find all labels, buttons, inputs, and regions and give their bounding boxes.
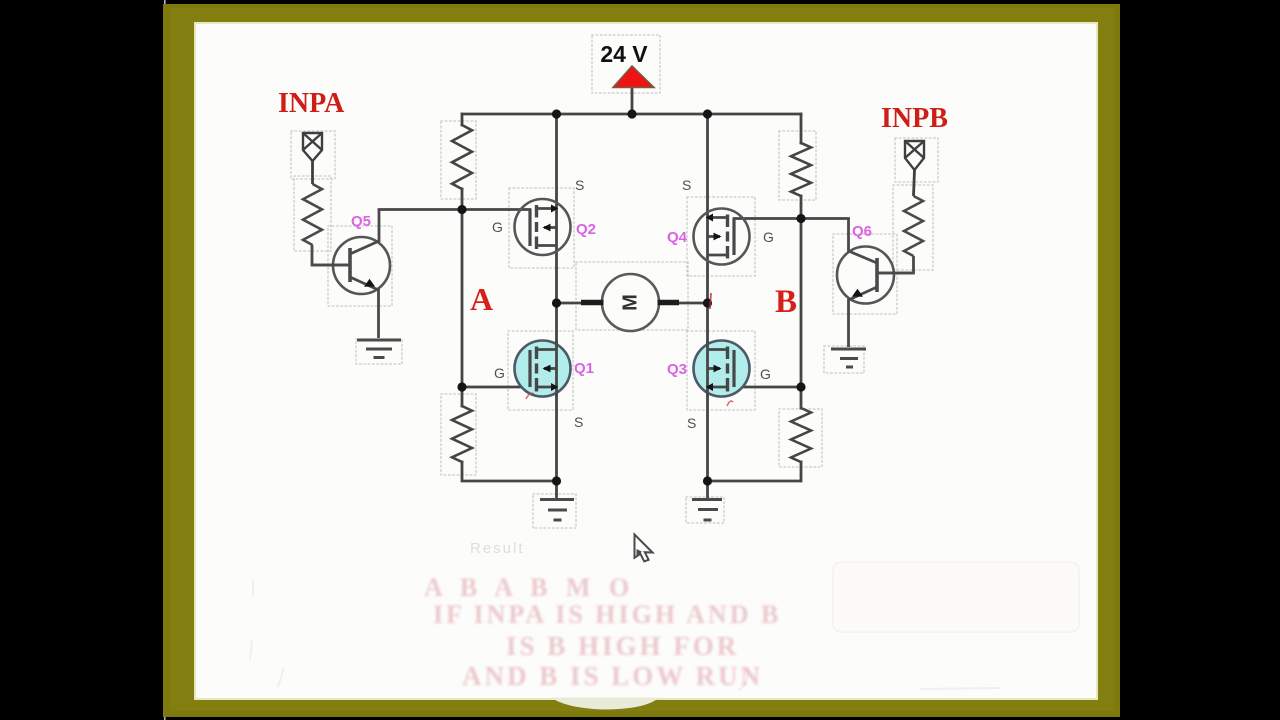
dashed box: motor: [576, 262, 688, 330]
svg-text:S: S: [574, 414, 583, 430]
wire mid-right ground stub: [706, 481, 709, 498]
svg-text:B: B: [775, 284, 797, 320]
wire INPB resistor to Q6 base: [877, 256, 914, 273]
transistor Q6: [837, 219, 914, 348]
input terminal INPA: [303, 133, 322, 184]
svg-text:G: G: [494, 365, 505, 381]
wire right column (node to R4): [800, 387, 803, 408]
svg-text:Q5: Q5: [351, 213, 371, 230]
red tick at node B wire: [710, 293, 711, 309]
power supply 24V arrow: [613, 66, 654, 88]
svg-text:G: G: [492, 219, 503, 235]
wire R4 bottom corner to ground node: [708, 462, 802, 481]
wire mid-right column: [706, 114, 709, 481]
wire R1 bottom to node: [461, 189, 464, 210]
wire motor right: [677, 302, 708, 305]
resistor R4 bottom-right zigzag: [791, 408, 811, 462]
wire right column top (rail to R2): [800, 114, 803, 143]
svg-text:G: G: [760, 366, 771, 382]
wire mid-left column: [555, 114, 558, 481]
dashed box: ground Q6: [824, 346, 864, 373]
mosfet Q4: [694, 209, 750, 265]
ground for Q6: [831, 349, 866, 367]
wire right rail B (node to node): [800, 219, 803, 388]
wire left column (node to R3): [461, 387, 464, 406]
svg-text:INPA: INPA: [278, 88, 345, 119]
dashed box: mosfet Q2: [509, 188, 574, 268]
svg-text:S: S: [687, 415, 696, 431]
dashed box: 24V supply: [592, 35, 660, 93]
faint ghost panel right: [833, 562, 1079, 632]
svg-text:Q3: Q3: [667, 361, 687, 378]
wire 24V stub: [631, 87, 634, 114]
dashed box: terminal INPB: [895, 138, 938, 182]
dashed box: transistor Q6: [833, 234, 897, 314]
junction dots: [457, 109, 805, 485]
mosfet Q3 (highlighted): [694, 341, 750, 397]
dashed box: transistor Q5: [328, 226, 392, 306]
ghost overlay text: [424, 573, 781, 691]
svg-text:S: S: [682, 177, 691, 193]
motor M1: [581, 274, 679, 331]
svg-text:M: M: [620, 294, 642, 311]
mouse cursor: [635, 535, 653, 562]
wire INPA resistor to Q5 base: [312, 245, 350, 265]
wire left column top (rail to R1): [461, 114, 464, 125]
dashed box: resistor top-right: [779, 131, 816, 200]
dashed box: resistor bottom-left: [441, 394, 476, 475]
transistor Q5: [312, 210, 391, 339]
cream notch on bottom border: [551, 698, 659, 710]
dashed box: resistor INPB: [893, 185, 933, 270]
svg-text:Q6: Q6: [852, 223, 872, 240]
resistor R1 top-left zigzag: [452, 125, 472, 189]
wire top rail: [462, 113, 801, 116]
svg-text:A: A: [470, 281, 493, 317]
mosfet Q1 (highlighted): [515, 341, 571, 397]
svg-text:AND B IS LOW RUN: AND B IS LOW RUN: [462, 661, 763, 691]
svg-text:IF INPA IS HIGH AND B: IF INPA IS HIGH AND B: [433, 600, 781, 629]
dashed box: terminal INPA: [291, 131, 335, 179]
svg-text:IS B HIGH FOR: IS B HIGH FOR: [506, 631, 739, 661]
svg-text:Q1: Q1: [574, 360, 594, 377]
wire motor left: [557, 302, 585, 305]
dashed box: resistor top-left: [441, 121, 476, 199]
dashed box: mosfet Q3: [687, 331, 755, 410]
svg-text:24 V: 24 V: [600, 41, 648, 67]
wire Q1 gate row: [462, 386, 530, 389]
ground mid-right: [692, 500, 722, 521]
wire mid-left ground stub: [555, 481, 558, 498]
svg-text:INPB: INPB: [881, 103, 948, 134]
wire Q3 gate row: [734, 386, 801, 389]
dashed box: ground mid-right: [686, 497, 724, 523]
input terminal INPB: [905, 141, 924, 196]
dashed box: resistor bottom-right: [779, 409, 822, 467]
resistor R3 bottom-left zigzag: [452, 406, 472, 462]
resistor INPA input: [303, 184, 322, 245]
ground for Q5: [357, 340, 401, 358]
dashed box: mosfet Q4: [687, 197, 755, 276]
resistor R2 top-right zigzag: [791, 143, 811, 196]
svg-text:S: S: [575, 177, 584, 193]
wire gate node A row (Q5 collector to Q2 gate): [379, 208, 530, 211]
dashed box: ground Q5: [356, 339, 402, 364]
mosfet Q2: [515, 199, 571, 255]
dashed box: mosfet Q1: [508, 331, 573, 410]
red mark under Q3: [727, 401, 733, 406]
red mark under Q1: [526, 393, 534, 399]
wire left rail A (node to node): [461, 210, 464, 388]
svg-text:Q2: Q2: [576, 221, 596, 238]
wire R3 bottom corner to ground node: [462, 462, 557, 481]
wire Q4 gate row (gate to Q6 collector): [734, 217, 849, 220]
svg-text:Result: Result: [470, 540, 525, 557]
ground mid-left: [540, 500, 574, 521]
svg-text:A B A B M O: A B A B M O: [424, 573, 635, 602]
svg-text:Q4: Q4: [667, 229, 688, 246]
dashed box: ground mid-left: [533, 494, 576, 528]
svg-text:G: G: [763, 229, 774, 245]
wire R2 bottom to node: [800, 196, 803, 219]
resistor INPB input: [904, 196, 923, 256]
dashed box: resistor INPA: [294, 176, 331, 251]
